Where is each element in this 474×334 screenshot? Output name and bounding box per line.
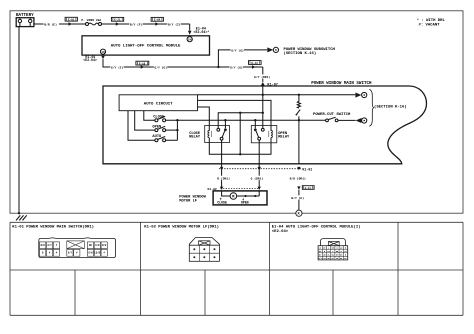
pin connector E-13 ground path (297, 186, 314, 190)
svg-text:K1-01 POWER WINDOW MAIN SWITCH: K1-01 POWER WINDOW MAIN SWITCH(DR1) (12, 224, 94, 229)
label wire B/Y (I) (167, 22, 181, 27)
svg-text:P. WIND 30A: P. WIND 30A (81, 19, 101, 22)
pinout connector K1-01 (39, 238, 116, 258)
node motor terminals (244, 195, 246, 197)
svg-text:E-18: E-18 (139, 63, 146, 66)
svg-text:CLOSE: CLOSE (217, 200, 227, 204)
svg-text:LG/B: LG/B (95, 252, 101, 255)
wire auto circuit to open relay coil (198, 100, 272, 130)
svg-text:E-13: E-13 (305, 187, 312, 190)
relay K2 CLOSE RELAY (189, 126, 229, 143)
svg-text:#: VACANT: #: VACANT (419, 24, 441, 28)
pin connector out of module E1-04 (101, 56, 105, 59)
svg-text:POWER-CUT SWITCH: POWER-CUT SWITCH (313, 113, 351, 117)
svg-text:A/Y: A/Y (48, 244, 53, 247)
switch POWER-CUT SWITCH (313, 113, 351, 122)
switch S1 POWER WINDOW MAIN SWITCH outline (103, 86, 427, 164)
wire battery negative to ground (18, 27, 20, 214)
svg-text:E-04: E-04 (154, 19, 161, 22)
svg-text:(SECTION K-16): (SECTION K-16) (284, 51, 317, 56)
svg-text:R (DR1): R (DR1) (217, 176, 230, 180)
ground point circle (296, 210, 302, 217)
svg-text:B/R (E): B/R (E) (44, 22, 57, 26)
label wire B/Y (E) (291, 195, 304, 200)
wire coil return line (209, 113, 271, 155)
connector E-13 (249, 61, 262, 69)
switch OPEN (152, 125, 165, 131)
svg-text:G/Y (G): G/Y (G) (230, 65, 243, 69)
svg-text:<E2-04>: <E2-04> (83, 58, 96, 62)
label wire G/Y (G) first (154, 65, 167, 70)
switch CLOSE (153, 115, 165, 121)
wire switch output bus (166, 120, 178, 140)
svg-text:* : WITH DRL: * : WITH DRL (417, 18, 446, 23)
ground symbol (16, 215, 27, 220)
wire contact line to power-cut switch (177, 119, 355, 121)
pin 16 (100, 49, 105, 54)
svg-text:K1-01: K1-01 (302, 168, 312, 172)
label OPEN direction (241, 198, 249, 204)
label wire G/Y (G) subswitch (231, 48, 244, 53)
pinout connector K1-02 (189, 238, 219, 262)
connector E-04 (151, 17, 163, 25)
svg-text:B/Y (F): B/Y (F) (130, 22, 143, 26)
label wire B/R (E) (44, 22, 60, 27)
node bus junctions (176, 119, 178, 121)
pin connector into module E1-04 (188, 31, 192, 35)
wire branch to subswitch (218, 50, 267, 67)
svg-text:24: 24 (188, 38, 192, 41)
wire K1-07 feed vertical (262, 86, 264, 129)
wire ground drop (298, 190, 300, 210)
connector E-01 (65, 17, 77, 25)
wire motor close terminal (222, 191, 230, 196)
label wire B/D (DR1) (289, 176, 309, 181)
svg-text:B/D (DR1): B/D (DR1) (290, 176, 306, 180)
wire module output G/Y (103, 59, 263, 82)
wire open relay output to motor (258, 140, 260, 187)
auto circuit block (119, 95, 197, 111)
connector to subswitch upper (355, 92, 366, 97)
wire power cut to ground exit (298, 120, 300, 164)
svg-text:B/D: B/D (41, 244, 46, 247)
svg-text:OPEN: OPEN (241, 200, 249, 204)
node junction coil return (239, 153, 241, 155)
svg-text:AUTO LIGHT-OFF CONTROL MODULE: AUTO LIGHT-OFF CONTROL MODULE (111, 44, 181, 48)
pinout connector E1-04 (318, 239, 348, 260)
node contact line junctions (224, 119, 226, 121)
wire battery B+ feed top row (34, 24, 190, 31)
svg-text:G/W: G/W (88, 252, 93, 255)
motor symbol M (230, 193, 237, 200)
svg-text:G/Y (I): G/Y (I) (111, 65, 124, 69)
svg-text:G/Y (DR1): G/Y (DR1) (254, 75, 270, 79)
node junction B+ at K1-07 (262, 94, 264, 96)
connector to subswitch lower (356, 118, 367, 123)
svg-text:RELAY: RELAY (189, 136, 201, 140)
svg-text:B/Y (E): B/Y (E) (291, 196, 304, 200)
svg-text:G/Y (G): G/Y (G) (231, 48, 244, 52)
svg-text:MOTOR LF: MOTOR LF (179, 199, 197, 203)
node junction coil return tap (239, 112, 241, 114)
node junction G/Y split (217, 66, 219, 68)
battery BATTERY (16, 14, 34, 26)
label wire G/Y (DR1) (253, 74, 270, 79)
svg-text:K1-02 POWER WINDOW MOTOR LF(DR: K1-02 POWER WINDOW MOTOR LF(DR1) (144, 224, 219, 229)
table grid (10, 222, 463, 315)
svg-text:E1-04 AUTO LIGHT-OFF CONTROL M: E1-04 AUTO LIGHT-OFF CONTROL MODULE(I) (272, 224, 361, 229)
wire B+ line to relay circle contacts (218, 113, 263, 129)
svg-text:G (DR1): G (DR1) (251, 176, 264, 180)
node junction B+ at lock branch (298, 94, 300, 96)
connector K1-02 dashed edge (208, 187, 261, 191)
connector E-18 (136, 61, 149, 68)
wire auto circuit to close relay coil (198, 107, 210, 131)
svg-text:R/W: R/W (102, 244, 107, 247)
motor M1 POWER WINDOW MOTOR LF box (213, 191, 267, 205)
svg-text:G/Y: G/Y (68, 252, 73, 255)
pin 24 (187, 37, 192, 42)
svg-text:E-13: E-13 (252, 62, 259, 65)
svg-text:B/Y (I): B/Y (I) (168, 22, 181, 26)
fuse P. WIND 30A (81, 19, 101, 26)
switch lock lever (296, 110, 300, 121)
switch AUTO (152, 135, 165, 142)
svg-text:AUTO CIRCUIT: AUTO CIRCUIT (144, 103, 173, 107)
label wire B/Y (F) (129, 22, 142, 27)
connector K1-01 dashed edge (219, 167, 312, 172)
brace section K-16 (369, 89, 374, 126)
svg-text:16: 16 (101, 51, 105, 54)
label CLOSE direction (217, 198, 227, 204)
wire motor open terminal (237, 191, 260, 196)
connector to POWER WINDOW SUBSWITCH (267, 47, 335, 55)
schematic frame border (10, 11, 463, 213)
resistor lock circuit (297, 95, 300, 108)
svg-text:<E2-04>*: <E2-04>* (194, 30, 210, 34)
svg-text:(SECTION K-16): (SECTION K-16) (374, 105, 407, 110)
wire close relay output to motor (221, 140, 223, 187)
node ground junction (18, 212, 20, 214)
svg-text:G/Y (G): G/Y (G) (154, 65, 167, 69)
svg-text:RELAY: RELAY (278, 136, 290, 140)
svg-text:E-21: E-21 (114, 19, 121, 22)
label wire G/Y (G) second (230, 65, 243, 70)
svg-text:<E2-04>: <E2-04> (272, 229, 289, 234)
label wire G/Y (I) (110, 65, 123, 70)
pin connector K1-07 into main switch (261, 82, 265, 86)
wire close relay contact risers (225, 120, 255, 128)
svg-text:E-01: E-01 (68, 19, 75, 22)
svg-text:A/W: A/W (95, 244, 100, 247)
connector E-21 (111, 17, 123, 25)
wire B+ bus inside switch (198, 94, 356, 96)
wire auto circuit drops to switches (128, 111, 155, 141)
op module U1 AUTO LIGHT-OFF CONTROL MODULE (82, 36, 210, 55)
label wire R (DR1) (217, 176, 234, 181)
relay K1 OPEN RELAY (251, 126, 290, 143)
label wire G (DR1) (250, 176, 267, 181)
